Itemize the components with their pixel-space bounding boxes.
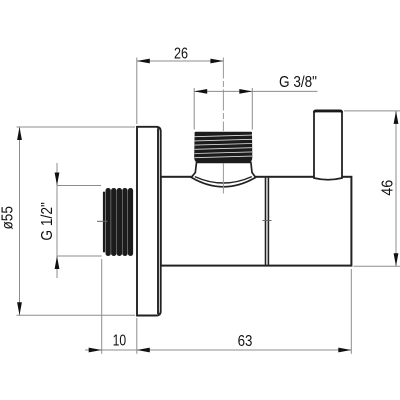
svg-text:63: 63 bbox=[238, 333, 253, 350]
svg-text:46: 46 bbox=[379, 180, 396, 196]
svg-text:G 3/8": G 3/8" bbox=[279, 74, 317, 91]
svg-text:26: 26 bbox=[174, 46, 188, 63]
svg-text:10: 10 bbox=[113, 333, 127, 350]
svg-text:ø55: ø55 bbox=[0, 206, 16, 230]
svg-text:G 1/2": G 1/2" bbox=[39, 202, 56, 241]
